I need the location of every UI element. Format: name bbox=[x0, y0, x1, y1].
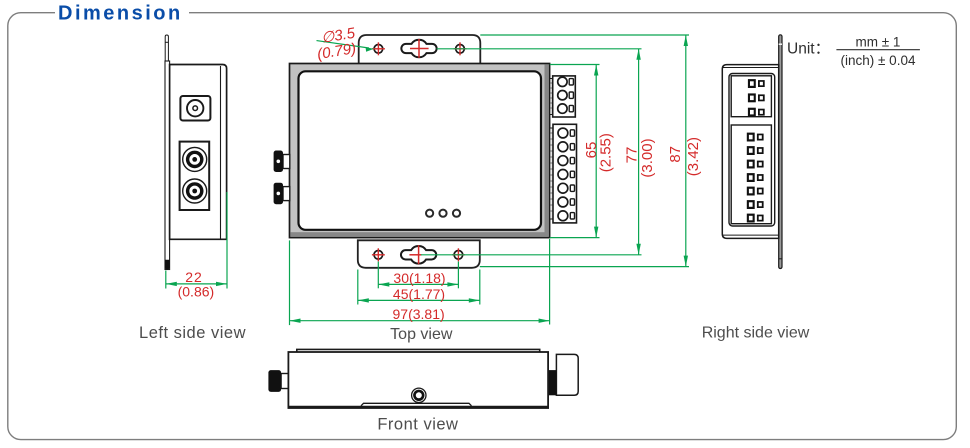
screw hole top-right bbox=[454, 42, 467, 55]
body (left view) bbox=[170, 65, 227, 240]
body outer (top view) bbox=[290, 64, 550, 238]
svg-text:(inch) ± 0.04: (inch) ± 0.04 bbox=[841, 53, 916, 68]
body right dark band bbox=[545, 64, 549, 236]
screw hole bottom-right bbox=[452, 248, 465, 261]
dim 77 extension lines bbox=[421, 49, 642, 255]
terminal block 7pin (right view) bbox=[731, 125, 771, 224]
unit note bbox=[787, 34, 920, 68]
svg-text:22: 22 bbox=[185, 269, 203, 285]
dim 22 line with arrows (left view) bbox=[166, 282, 227, 286]
svg-text:(0.86): (0.86) bbox=[178, 284, 215, 300]
svg-text:77: 77 bbox=[623, 147, 640, 164]
ST connector 2 bbox=[183, 179, 207, 203]
dim 97 line bbox=[290, 319, 550, 323]
terminal block 7pin (top view right) bbox=[550, 124, 577, 223]
dim 45 extension lines bbox=[358, 270, 480, 305]
body (right view) bbox=[722, 65, 778, 239]
svg-text:(2.55): (2.55) bbox=[597, 133, 614, 172]
keyhole slot top tab bbox=[401, 39, 436, 58]
dim 22 extension lines (left view) bbox=[166, 192, 227, 289]
terminal block (front view right) bbox=[548, 354, 578, 395]
dim 87 extension lines bbox=[480, 35, 689, 267]
body inner lid (top view) bbox=[299, 71, 542, 230]
screw hole bottom-left bbox=[372, 248, 385, 261]
svg-text:Left side view: Left side view bbox=[139, 324, 246, 342]
bracket plate (left view) bbox=[165, 61, 170, 270]
dim 77 line bbox=[636, 49, 640, 255]
dim 30 extension lines bbox=[378, 262, 458, 289]
body inner rounded rect (right view) bbox=[729, 74, 775, 227]
svg-text:Top view: Top view bbox=[390, 326, 453, 343]
svg-text:Front view: Front view bbox=[377, 415, 458, 433]
bottom mounting tab bbox=[358, 240, 480, 267]
bracket plate (right view) bbox=[779, 35, 782, 269]
terminal block 3pin (right view) bbox=[731, 76, 771, 117]
bracket pin top (left view) bbox=[165, 35, 168, 61]
dim 65 line bbox=[594, 65, 598, 238]
dim 30 line bbox=[378, 282, 458, 286]
ST connector block (left view) bbox=[180, 142, 210, 210]
dim 65 extension lines bbox=[550, 65, 600, 238]
leader dia 3.5 bbox=[317, 41, 375, 52]
svg-text:(3.00): (3.00) bbox=[639, 138, 656, 177]
dim 45 line bbox=[358, 298, 480, 302]
body (front view) bbox=[288, 349, 548, 408]
fiber connector top (top view, left side) bbox=[274, 151, 290, 173]
svg-text:Right side view: Right side view bbox=[702, 325, 810, 342]
fiber connector (front view left) bbox=[268, 370, 289, 392]
screw hole top-left bbox=[372, 42, 385, 55]
svg-text:mm ± 1: mm ± 1 bbox=[856, 34, 901, 49]
svg-text:97(3.81): 97(3.81) bbox=[393, 306, 445, 322]
dim 97 extension lines bbox=[290, 239, 550, 325]
svg-text:45(1.77): 45(1.77) bbox=[393, 286, 445, 302]
keyhole slot bottom tab bbox=[401, 245, 436, 264]
screw (front view) bbox=[412, 388, 426, 402]
fiber connector bottom (top view, left side) bbox=[274, 183, 290, 205]
svg-text:(3.42): (3.42) bbox=[685, 137, 702, 176]
top mounting tab bbox=[359, 35, 481, 65]
body bottom dark band bbox=[290, 232, 548, 237]
bracket foot black (left view) bbox=[165, 260, 170, 270]
terminal block 3pin (top view right) bbox=[550, 76, 576, 117]
svg-text:30(1.18): 30(1.18) bbox=[393, 270, 445, 286]
svg-text:Dimension: Dimension bbox=[58, 2, 183, 24]
power jack (left view) bbox=[180, 96, 210, 121]
svg-text:Unit：: Unit： bbox=[787, 40, 830, 57]
ST connector 1 bbox=[183, 147, 207, 171]
dim 87 line bbox=[684, 35, 688, 267]
svg-text:87: 87 bbox=[667, 146, 684, 163]
LED holes bbox=[426, 210, 460, 217]
